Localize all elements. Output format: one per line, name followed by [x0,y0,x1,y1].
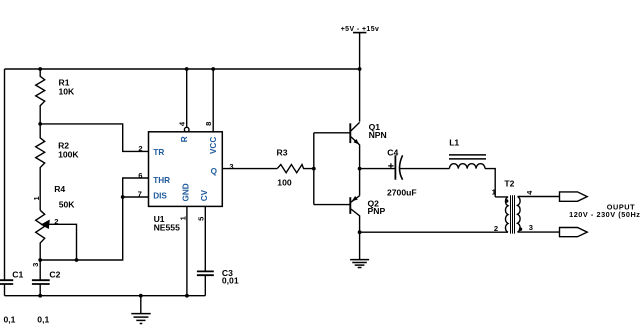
node junction ground on rail [139,294,143,298]
svg-text:1: 1 [492,188,497,197]
wire R4 wiper [48,224,77,260]
wire R4 bottom to C2 [39,260,41,280]
svg-text:L1: L1 [449,137,459,147]
wire to Q1 base [314,132,351,134]
svg-text:5: 5 [196,216,205,221]
svg-text:NE555: NE555 [154,222,180,232]
polarity dot primary [505,199,508,202]
svg-text:100: 100 [277,178,292,188]
svg-text:PNP: PNP [368,206,386,216]
wire bottom ground rail [5,295,206,297]
wire C2 to ground rail [39,284,41,296]
node junction Q2 collector [358,230,362,234]
node junction pin 1 on rail [185,294,189,298]
resistor R1 [36,69,45,124]
svg-text:0,01: 0,01 [222,276,239,286]
wire Q1 emitter to C4 [360,168,395,170]
transistor Q2 [350,169,359,233]
timer U1 NE555 body [149,132,223,207]
svg-text:Q: Q [211,167,218,176]
wire pin 8 to supply rail [212,69,214,132]
wire pin 3 output to R3 [222,168,277,170]
wire C4 to L1 [400,168,449,170]
node junction R1 top on supply rail [38,67,42,71]
node junction supply wire on rail [358,67,362,71]
svg-text:C4: C4 [387,147,398,157]
svg-text:0,1: 0,1 [37,315,49,325]
node junction C2 bottom [38,294,42,298]
wire C3 to ground rail [204,275,206,296]
wire pin 4 to supply rail [186,69,188,127]
capacitor C4 [388,155,402,179]
svg-text:3: 3 [229,162,233,171]
wire L1 to T2 pin 1 [485,169,495,197]
svg-text:0,1: 0,1 [4,315,16,325]
ground under Q2 [350,232,369,267]
svg-text:2: 2 [54,217,58,226]
connector output top [560,192,588,201]
svg-text:R3: R3 [277,148,288,158]
svg-text:120V - 230V (50Hz: 120V - 230V (50Hz [569,210,640,219]
wire node to pin 2 of U1 [40,124,148,151]
svg-text:GND: GND [181,183,190,201]
svg-text:100K: 100K [58,150,79,160]
svg-text:1: 1 [179,215,188,220]
node junction Q1 emitter [358,167,362,171]
wire pin 1 to ground rail [186,206,188,295]
wire T2 pin 4 to top connector [518,196,560,198]
node junction wiper return [75,258,79,262]
svg-text:2: 2 [138,144,142,153]
wire left stub below C1 [4,284,6,296]
node junction R1/R2 [38,122,42,126]
node junction pin 8 on rail [211,67,215,71]
wire T2 pin 3 to bottom connector [518,231,560,233]
polarity dot secondary [519,228,522,231]
node junction pin 7 [121,195,125,199]
secondary winding [518,197,521,233]
svg-text:DIS: DIS [153,191,167,200]
svg-text:TR: TR [153,148,164,157]
svg-text:3: 3 [31,263,40,267]
wire top supply rail [5,68,360,70]
wire base branch vertical [313,133,315,205]
node junction R3 output [312,167,316,171]
primary winding [495,197,508,232]
core [511,195,515,233]
svg-text:NPN: NPN [369,130,387,140]
connector output bottom [560,228,588,237]
svg-text:6: 6 [138,171,142,180]
svg-text:8: 8 [204,122,213,126]
ground left [131,296,150,324]
svg-text:R: R [180,136,189,142]
svg-text:10K: 10K [59,87,76,97]
inversion bubble pin 4 [184,127,189,132]
wire pin 5 to C3 [204,206,206,271]
svg-text:C2: C2 [49,269,60,279]
svg-text:4: 4 [525,190,534,195]
capacitor C3 [197,271,214,275]
svg-text:CV: CV [200,189,209,201]
wire to Q2 base [314,204,351,206]
transformer T2 [495,195,522,233]
svg-text:THR: THR [153,176,170,185]
wire T2 pin 2 to Q2 collector [360,231,508,233]
wiper arrow of R4 [41,220,50,230]
resistor R2 [36,124,45,210]
svg-text:3: 3 [529,223,533,232]
svg-text:R4: R4 [54,184,65,194]
potentiometer R4 [36,210,45,260]
wire THR pin 6 branch [123,178,149,197]
svg-text:C1: C1 [12,269,23,279]
node junction pin 4 on rail [185,67,189,71]
svg-text:2700uF: 2700uF [387,187,417,197]
svg-text:VCC: VCC [209,137,218,154]
resistor R3 [277,165,314,173]
wire DIS pin 7 branch [123,196,149,198]
svg-text:4: 4 [178,121,187,126]
svg-text:50K: 50K [59,199,76,209]
node junction R4 bottom [38,258,42,262]
transistor Q1 [350,122,359,168]
wire left vertical rail [4,69,6,280]
wire node row to DIS branch [40,197,123,260]
inductor L1 [449,155,486,169]
capacitor C1 [0,280,13,284]
svg-text:T2: T2 [504,179,514,189]
power terminal +5V - +15v [341,26,380,122]
svg-text:7: 7 [138,190,142,199]
capacitor C2 [32,280,50,284]
